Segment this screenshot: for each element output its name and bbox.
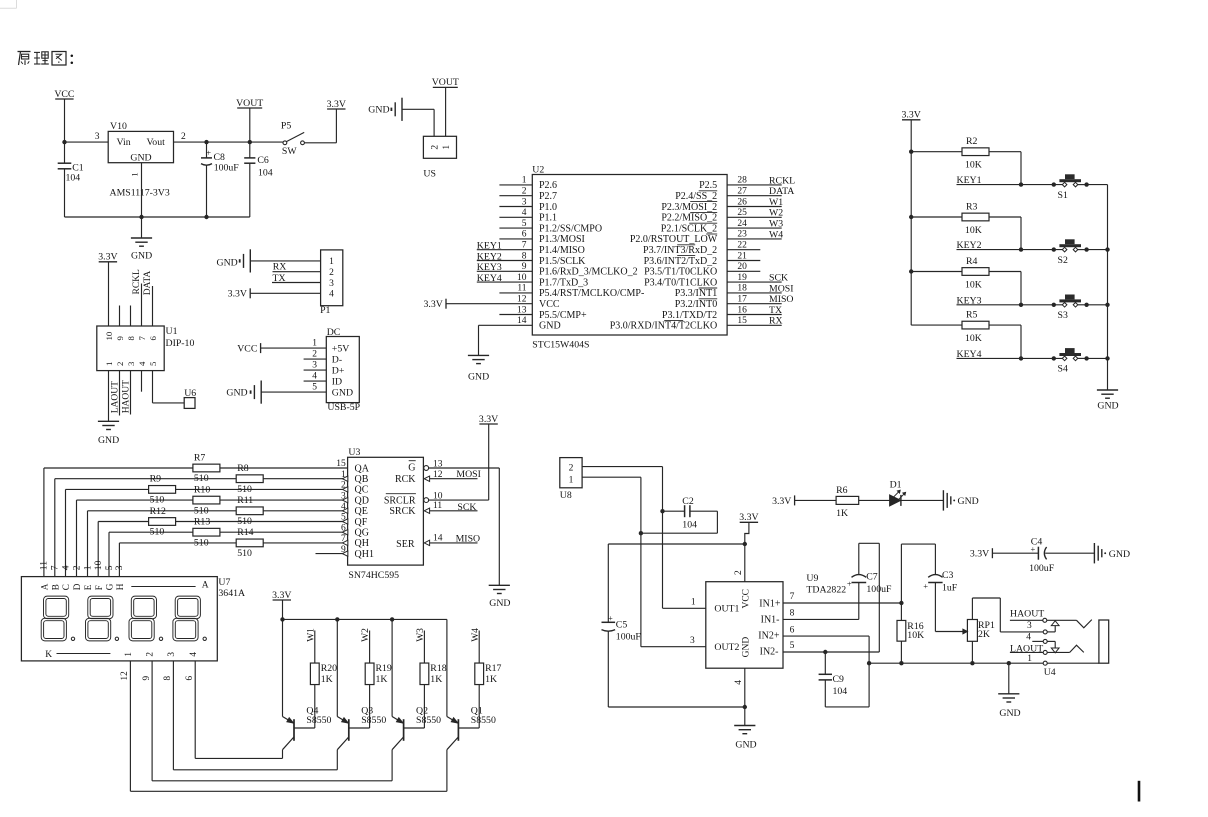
wire VCC to V10 Vin	[65, 132, 109, 142]
ground (U9)	[734, 726, 756, 751]
svg-text:C6: C6	[257, 155, 269, 166]
wire segment row QB	[55, 470, 348, 577]
svg-text:TDA2822: TDA2822	[806, 585, 846, 596]
svg-text:2: 2	[569, 464, 574, 474]
svg-text:D: D	[72, 583, 82, 590]
svg-text:2: 2	[522, 187, 527, 197]
svg-text:P1.4/MISO: P1.4/MISO	[539, 245, 585, 256]
svg-text:G: G	[408, 463, 415, 474]
svg-text:VOUT: VOUT	[236, 98, 263, 109]
svg-text:+: +	[206, 148, 211, 158]
node KEY4 (U2 pin 10)	[477, 273, 533, 284]
svg-text:W1: W1	[769, 197, 783, 208]
svg-text:10: 10	[93, 560, 104, 570]
wire U3 G pin 13 to ground	[424, 459, 499, 585]
svg-text:100uF: 100uF	[866, 584, 892, 595]
svg-text:C9: C9	[833, 674, 845, 685]
svg-text:SRCLR: SRCLR	[384, 496, 416, 507]
svg-text:W2: W2	[361, 628, 371, 642]
svg-text:19: 19	[737, 273, 747, 283]
svg-text:3: 3	[312, 361, 317, 371]
svg-text:RX: RX	[769, 316, 783, 327]
svg-text:1: 1	[442, 145, 452, 150]
svg-text:7: 7	[50, 565, 61, 570]
svg-text:GND: GND	[539, 321, 561, 332]
capacitor C1 104	[58, 163, 84, 217]
svg-text:2: 2	[71, 565, 82, 570]
svg-text:3: 3	[126, 361, 136, 366]
svg-text:9: 9	[522, 262, 527, 272]
wire U7 pin 6 to Q4 collector	[195, 661, 282, 759]
svg-text:GND: GND	[1097, 401, 1118, 412]
svg-text:6: 6	[341, 523, 346, 533]
svg-text:10K: 10K	[907, 630, 924, 641]
svg-text:6: 6	[522, 230, 527, 240]
svg-text:1K: 1K	[836, 508, 848, 519]
power port VCC	[54, 89, 74, 163]
svg-text:P2.6: P2.6	[539, 180, 557, 191]
svg-text:1K: 1K	[376, 674, 388, 685]
node SCK (U2 pin 19)	[727, 273, 788, 284]
svg-text:1: 1	[104, 362, 114, 366]
svg-text:K: K	[45, 650, 52, 660]
ground (U1 pin 1)	[98, 421, 119, 446]
resistor R16 10K	[897, 603, 924, 663]
node W4 (U2 pin 23)	[727, 229, 783, 240]
transistor Q3 S8550	[337, 619, 386, 769]
wire U9 GND pin 4 to ground	[744, 668, 746, 725]
svg-text:G: G	[105, 583, 115, 590]
svg-text:S8550: S8550	[306, 715, 331, 726]
power port 3.3V (U2 VCC pin 12)	[423, 295, 532, 311]
svg-text:3: 3	[329, 279, 334, 289]
svg-text:F: F	[94, 585, 104, 590]
svg-text:GND: GND	[742, 637, 752, 658]
junction dot keys rail row 2	[909, 215, 913, 219]
power port 3.3V (U3 SRCLR pin 10)	[424, 414, 498, 503]
resistor R20 1K	[294, 663, 337, 728]
node RX (P1 pin 2)	[273, 262, 321, 273]
svg-text:4: 4	[137, 361, 147, 366]
svg-text:11: 11	[433, 501, 442, 511]
power port VCC (DC pin 1)	[237, 343, 326, 354]
jack body U4	[1099, 620, 1109, 663]
resistor R18 1K	[404, 663, 447, 728]
wire audio ground rail	[867, 661, 1099, 665]
ground (audio jack)	[998, 694, 1020, 719]
node LAOUT (jack)	[1010, 643, 1043, 654]
svg-text:6: 6	[148, 336, 158, 341]
svg-text:9: 9	[341, 545, 346, 555]
U2 left pin labels	[539, 180, 644, 331]
svg-text:DATA: DATA	[143, 271, 153, 296]
wire U2 pin 13	[499, 305, 532, 315]
node MISO (U3 SER pin 14)	[424, 533, 480, 545]
wire U3 pin 9 QH1 stub	[316, 545, 348, 557]
svg-text:3: 3	[114, 565, 125, 570]
ground (P1 pin 1, sideways)	[217, 249, 251, 272]
svg-text:10: 10	[104, 331, 114, 340]
svg-text:5: 5	[312, 383, 317, 393]
svg-text:16: 16	[737, 305, 747, 315]
svg-text:1K: 1K	[321, 674, 333, 685]
svg-text:GND: GND	[368, 104, 389, 115]
IC U3 SN74HC595	[348, 447, 424, 581]
svg-text:2: 2	[734, 570, 744, 575]
jack pin 1 (sleeve)	[1027, 654, 1056, 678]
regulator V10 AMS1117-3V3	[108, 121, 173, 199]
wire DC pin 2 stub	[304, 358, 327, 360]
svg-text:10: 10	[517, 273, 527, 283]
svg-text:2: 2	[341, 481, 346, 491]
svg-text:D+: D+	[332, 366, 345, 377]
svg-text:5: 5	[341, 513, 346, 523]
svg-text:ID: ID	[332, 377, 342, 388]
svg-text:MISO: MISO	[456, 534, 481, 545]
LED D1	[890, 480, 944, 506]
svg-text:4: 4	[341, 502, 346, 512]
title 原理图: (schematic title)	[18, 52, 74, 66]
node MISO (U2 pin 17)	[727, 294, 793, 305]
svg-text:C2: C2	[682, 496, 694, 507]
wire segment row QC	[66, 481, 348, 577]
wire segment row QA	[44, 459, 348, 576]
resistor R5 10K	[911, 310, 1021, 359]
svg-text:R13: R13	[194, 517, 210, 528]
jack switch contact pin 4	[1026, 632, 1059, 653]
node MOSI (U3 RCK pin 12)	[424, 469, 481, 481]
svg-text:GND: GND	[131, 251, 152, 262]
wire segment row QG	[109, 523, 348, 576]
svg-text:W4: W4	[769, 229, 783, 240]
power port 3.3V (amplifier)	[739, 512, 758, 544]
svg-text:12: 12	[119, 671, 129, 681]
svg-text:W3: W3	[769, 219, 783, 230]
svg-text:1uF: 1uF	[942, 582, 958, 593]
svg-text:3: 3	[522, 197, 527, 207]
wire U9 IN1+ pin 7	[783, 592, 904, 605]
wire U2 pin 5	[499, 219, 532, 229]
svg-text:4: 4	[188, 652, 198, 657]
svg-text:10K: 10K	[965, 333, 982, 344]
wire U9 IN2- pin 5	[783, 641, 879, 654]
node RX (U2 pin 15)	[727, 316, 783, 327]
U2 right pin labels	[610, 180, 718, 331]
wire U1 pin 1 to ground	[108, 371, 110, 421]
svg-text:QD: QD	[355, 495, 369, 506]
svg-text:13: 13	[517, 305, 527, 315]
svg-text:3: 3	[1027, 621, 1032, 631]
wire U2 pin 4	[499, 208, 532, 218]
svg-text:P1.3/MOSI: P1.3/MOSI	[539, 234, 585, 245]
svg-text:14: 14	[433, 533, 443, 543]
ground (DC pin 5, sideways)	[226, 381, 261, 404]
svg-text:8: 8	[522, 251, 527, 261]
jack switch contact pin 3	[1043, 621, 1059, 634]
junction dot VCC/C1	[62, 140, 66, 144]
svg-text:P3.2/INT0: P3.2/INT0	[675, 299, 718, 310]
svg-text:HAOUT: HAOUT	[121, 380, 131, 413]
svg-text:1K: 1K	[430, 674, 442, 685]
resistor R10 510	[193, 484, 220, 516]
svg-text:104: 104	[833, 686, 848, 697]
U3 left pin labels	[355, 463, 374, 560]
svg-text:U4: U4	[1044, 667, 1056, 678]
svg-text:1: 1	[522, 176, 527, 186]
wire DC pin 3 stub	[304, 369, 327, 371]
svg-text:U3: U3	[348, 447, 360, 458]
wire segment row QD	[77, 491, 348, 576]
U7 bottom pin numbers	[119, 671, 194, 681]
capacitor C8 100uF	[201, 142, 239, 217]
svg-text:HAOUT: HAOUT	[1010, 609, 1044, 620]
svg-text:P3.0/RXD/INT4/T2CLKO: P3.0/RXD/INT4/T2CLKO	[610, 321, 718, 332]
svg-text:3: 3	[166, 652, 176, 657]
power port VOUT (US)	[432, 77, 459, 136]
svg-text:510: 510	[237, 548, 252, 559]
svg-text:C8: C8	[214, 152, 226, 163]
capacitor C5 100uF	[602, 544, 642, 707]
svg-text:3.3V: 3.3V	[902, 110, 921, 121]
node W3	[416, 628, 426, 663]
U7 common pin labels (bottom inside)	[45, 650, 198, 660]
svg-text:1: 1	[1027, 654, 1032, 664]
svg-text:1: 1	[123, 652, 133, 657]
svg-text:R7: R7	[194, 452, 206, 463]
svg-text:11: 11	[39, 561, 50, 570]
svg-text:1: 1	[82, 565, 93, 570]
wire U7 pin 8 to Q3 collector	[173, 661, 337, 770]
svg-text:R3: R3	[966, 202, 978, 213]
resistor R13 510	[193, 517, 220, 549]
ground (US pin 2, sideways)	[368, 98, 402, 121]
svg-text:P1.6/RxD_3/MCLKO_2: P1.6/RxD_3/MCLKO_2	[539, 267, 638, 278]
svg-text:3.3V: 3.3V	[772, 496, 791, 507]
svg-text:GND: GND	[98, 435, 119, 446]
svg-text:IN2-: IN2-	[760, 647, 779, 658]
wire GND to US	[402, 109, 434, 136]
svg-text:7: 7	[137, 336, 147, 341]
svg-text:Vin: Vin	[117, 137, 131, 148]
svg-text:R14: R14	[237, 527, 253, 538]
svg-text:QC: QC	[355, 485, 369, 496]
svg-text:15: 15	[336, 459, 346, 469]
transistor Q4 S8550	[283, 619, 332, 758]
7-segment digit 4	[173, 596, 206, 641]
node DATA (U2 pin 27)	[727, 186, 794, 197]
page corner artifact	[0, 0, 17, 8]
svg-text:R9: R9	[150, 474, 162, 485]
junction dot keys rail row 1	[909, 150, 913, 154]
node W2 (U2 pin 25)	[727, 208, 783, 219]
resistor R12 510	[149, 506, 176, 538]
svg-text:25: 25	[737, 208, 747, 218]
svg-text:13: 13	[433, 459, 443, 469]
svg-text:1: 1	[130, 172, 140, 176]
svg-text:VOUT: VOUT	[432, 77, 459, 88]
capacitor C6 104	[244, 142, 273, 217]
svg-text:US: US	[423, 169, 436, 180]
svg-text:S3: S3	[1058, 310, 1068, 321]
svg-text:11: 11	[517, 284, 526, 294]
svg-text:P1.5/SCLK: P1.5/SCLK	[539, 256, 586, 267]
svg-text:S1: S1	[1058, 190, 1068, 201]
svg-text:3.3V: 3.3V	[98, 252, 117, 263]
svg-text:2K: 2K	[978, 629, 990, 640]
power port 3.3V (C4)	[970, 548, 1039, 559]
svg-text:S8550: S8550	[416, 715, 441, 726]
junction dot C6/VOUT	[248, 140, 252, 144]
wire U2 pin 11	[499, 284, 532, 294]
svg-text:P1.7/TxD_3: P1.7/TxD_3	[539, 277, 588, 288]
node RCKL (U2 pin 28)	[727, 175, 795, 186]
svg-text:3: 3	[341, 491, 346, 501]
svg-text:SW: SW	[282, 146, 297, 157]
svg-text:GND: GND	[332, 388, 353, 399]
svg-text:1: 1	[691, 598, 696, 608]
U7 display pin numbers (top)	[39, 560, 126, 570]
svg-text:4: 4	[522, 208, 527, 218]
U7 segment letters	[40, 581, 209, 591]
svg-text:3.3V: 3.3V	[228, 289, 247, 300]
wire segment row QH	[119, 534, 347, 577]
svg-text:22: 22	[737, 241, 747, 251]
svg-text:10K: 10K	[965, 160, 982, 171]
svg-text:P3.7/INT3/RxD_2: P3.7/INT3/RxD_2	[643, 245, 717, 256]
wire U2 pin 20 stub	[727, 262, 760, 272]
svg-text:P3.1/TXD/T2: P3.1/TXD/T2	[662, 310, 717, 321]
svg-text:GND: GND	[489, 598, 510, 609]
wire jack ground drop	[1008, 663, 1010, 693]
node LAOUT (U1 pin 2)	[110, 371, 120, 416]
svg-text:SN74HC595: SN74HC595	[348, 570, 399, 581]
resistor R17 1K	[458, 663, 501, 728]
svg-text:+5V: +5V	[332, 344, 350, 355]
svg-text:3641A: 3641A	[218, 588, 245, 599]
svg-text:1: 1	[329, 257, 334, 267]
wire U2 pin 22 stub	[727, 241, 760, 251]
svg-text:5: 5	[522, 219, 527, 229]
svg-text:MOSI: MOSI	[769, 283, 794, 294]
svg-text:SER: SER	[396, 539, 415, 550]
capacitor C2 104	[641, 496, 718, 533]
svg-text:MISO: MISO	[769, 294, 794, 305]
ground (regulator)	[131, 217, 152, 262]
svg-text:D-: D-	[332, 355, 342, 366]
node KEY1 (U2 pin 7)	[477, 241, 533, 252]
svg-text:R8: R8	[237, 463, 249, 474]
wire segment row QE	[88, 502, 348, 577]
svg-text:104: 104	[66, 173, 81, 184]
svg-text:S2: S2	[1058, 255, 1068, 266]
wire ground rail of regulator	[65, 215, 250, 219]
svg-text:28: 28	[737, 176, 747, 186]
svg-text:QB: QB	[355, 474, 369, 485]
svg-text:C7: C7	[866, 572, 878, 583]
svg-text:3.3V: 3.3V	[272, 590, 291, 601]
ground (keys)	[1097, 390, 1119, 412]
power port 3.3V (P1 pin 4)	[228, 288, 321, 299]
svg-text:RCKL: RCKL	[769, 175, 795, 186]
node HAOUT (jack)	[1010, 609, 1044, 621]
resistor R19 1K	[349, 663, 392, 728]
svg-text:3.3V: 3.3V	[970, 549, 989, 560]
svg-text:H: H	[115, 583, 125, 590]
text cursor mark	[1138, 781, 1141, 802]
svg-text:IN1+: IN1+	[759, 599, 781, 610]
wire U8 pin 2 to U9 OUT1	[582, 467, 706, 609]
svg-text:Vout: Vout	[147, 137, 166, 148]
svg-text:S8550: S8550	[471, 715, 496, 726]
svg-text:U9: U9	[806, 573, 818, 584]
7-segment digit 3	[129, 596, 163, 641]
node MOSI (U2 pin 18)	[727, 283, 793, 294]
display U7 3641A	[21, 577, 245, 661]
svg-text:5: 5	[790, 641, 795, 651]
svg-text:5: 5	[148, 361, 158, 366]
svg-text:E: E	[83, 584, 93, 590]
svg-text:U1: U1	[166, 326, 178, 337]
node W1	[306, 628, 316, 663]
svg-text:18: 18	[737, 284, 747, 294]
svg-text:GND: GND	[226, 387, 247, 398]
IC U9 TDA2822	[690, 570, 846, 685]
svg-text:V10: V10	[110, 121, 127, 132]
power port VOUT (regulator output)	[236, 98, 263, 142]
svg-text:RCKL: RCKL	[132, 269, 142, 295]
wire U9 IN2+ pin 6	[783, 625, 869, 663]
svg-text:QF: QF	[355, 517, 368, 528]
svg-text:10: 10	[433, 491, 443, 501]
wire DC pin 5	[261, 391, 326, 393]
connector U8	[560, 458, 582, 501]
svg-text:USB-5P: USB-5P	[327, 402, 360, 413]
node DATA (U1 pin 6)	[143, 271, 153, 326]
ground (U3 G)	[489, 585, 511, 609]
U3 right pin labels	[384, 461, 416, 550]
connector U6	[184, 388, 196, 408]
svg-text:P2.7: P2.7	[539, 191, 557, 202]
svg-text:B: B	[50, 584, 60, 590]
svg-text:GND: GND	[217, 257, 238, 268]
node W4	[471, 628, 481, 663]
svg-text:GND: GND	[735, 740, 756, 751]
svg-text:DIP-10: DIP-10	[166, 338, 195, 349]
svg-text:8: 8	[162, 676, 172, 681]
svg-text:RX: RX	[273, 262, 287, 273]
7-segment digit 2	[86, 596, 119, 641]
ground (U2 GND)	[468, 355, 489, 382]
svg-text:27: 27	[737, 187, 747, 197]
capacitor C9 104	[819, 652, 870, 707]
svg-text:12: 12	[517, 295, 527, 305]
svg-text:GND: GND	[999, 708, 1020, 719]
svg-text:D1: D1	[890, 480, 902, 491]
svg-text:A: A	[40, 583, 50, 590]
junction dot keys rail row 3	[909, 269, 913, 273]
svg-text:OUT1: OUT1	[714, 604, 739, 615]
svg-text:20: 20	[737, 262, 747, 272]
node W3 (U2 pin 24)	[727, 219, 783, 230]
svg-text:+: +	[923, 581, 928, 591]
svg-text:IN1-: IN1-	[761, 615, 780, 626]
ground (C4, sideways)	[1094, 543, 1130, 563]
svg-text:W1: W1	[306, 628, 316, 642]
svg-text:15: 15	[737, 316, 747, 326]
wire U2 pin 21 stub	[727, 251, 760, 261]
wire U1 pin 5 to U6	[153, 371, 185, 403]
svg-text:4: 4	[1026, 632, 1031, 642]
